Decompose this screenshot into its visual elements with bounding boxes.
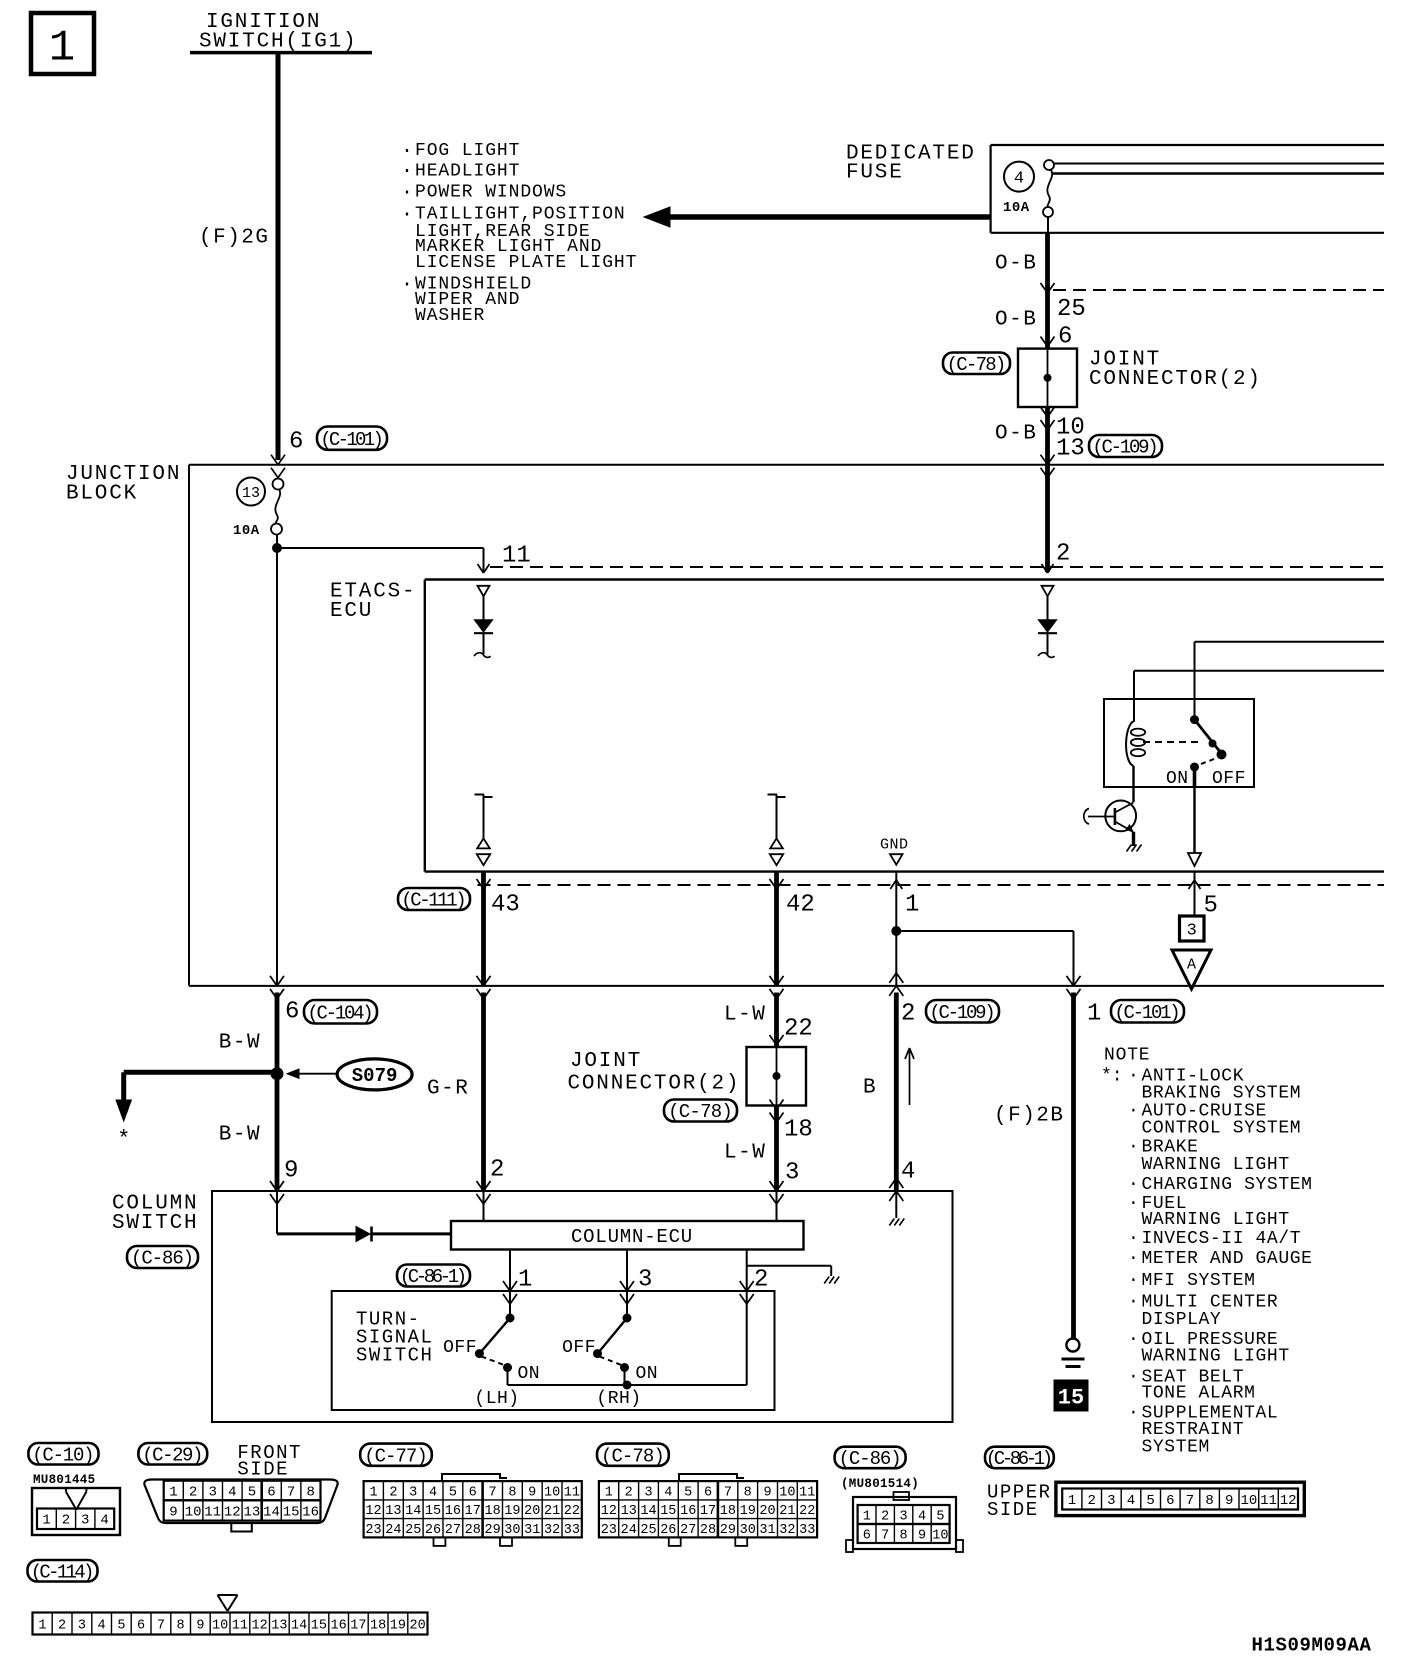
- svg-text:·: ·: [401, 181, 413, 204]
- connector C-78 drawing: [679, 1474, 744, 1481]
- wire pin 9 inside column switch: [276, 1191, 278, 1234]
- svg-text:·: ·: [1128, 1367, 1139, 1387]
- svg-text:23: 23: [365, 1523, 381, 1538]
- svg-text:18: 18: [370, 1618, 386, 1633]
- svg-text:30: 30: [504, 1523, 520, 1538]
- svg-text:1: 1: [1068, 1493, 1076, 1509]
- svg-text:27: 27: [445, 1523, 461, 1538]
- fuse 4 element: [1044, 160, 1054, 170]
- svg-text:28: 28: [465, 1523, 481, 1538]
- svg-text:2: 2: [754, 1267, 768, 1294]
- transistor emitter to internal ground: [1132, 832, 1135, 846]
- junction dot below fuse 13: [272, 543, 282, 553]
- ignition switch terminal bar: [190, 51, 372, 55]
- svg-text:B-W: B-W: [219, 1123, 261, 1146]
- svg-text:3: 3: [900, 1509, 908, 1524]
- svg-text:(C-78): (C-78): [668, 1101, 732, 1123]
- svg-text:(C-104): (C-104): [307, 1003, 371, 1025]
- svg-text:28: 28: [700, 1523, 716, 1538]
- svg-text:3: 3: [409, 1485, 417, 1500]
- svg-text:(C-10): (C-10): [32, 1445, 93, 1467]
- svg-text:OFF: OFF: [562, 1338, 596, 1358]
- diode inside column switch: [356, 1227, 370, 1242]
- ground reference black box 15: [1054, 1380, 1088, 1411]
- svg-text:DISPLAY: DISPLAY: [1142, 1310, 1222, 1330]
- svg-text:19: 19: [390, 1618, 406, 1633]
- svg-text:2: 2: [1087, 1493, 1095, 1509]
- svg-text:·: ·: [1128, 1066, 1139, 1086]
- svg-text:B-W: B-W: [219, 1032, 261, 1055]
- transistor Q1 inside ETACS: [1105, 801, 1136, 832]
- svg-text:9: 9: [196, 1618, 204, 1633]
- svg-text:·: ·: [1128, 1330, 1139, 1350]
- label C-109 stadium lower: [926, 1000, 999, 1023]
- svg-text:11: 11: [502, 543, 531, 570]
- relay box inside ETACS: [1104, 699, 1254, 787]
- relay coil-to-switch dashed link: [1143, 741, 1199, 743]
- svg-text:1: 1: [369, 1485, 377, 1500]
- svg-text:WARNING LIGHT: WARNING LIGHT: [1142, 1346, 1290, 1366]
- wire G-R into column ecu: [483, 1205, 485, 1221]
- joint connector (2) box C-78 top: [1018, 349, 1077, 407]
- svg-text:11: 11: [799, 1485, 815, 1500]
- svg-text:(F)2B: (F)2B: [994, 1105, 1065, 1128]
- svg-text:5: 5: [1146, 1493, 1154, 1509]
- svg-text:·: ·: [1128, 1137, 1139, 1157]
- relay switch common contact: [1190, 715, 1199, 724]
- GND pin triangle: [890, 854, 903, 865]
- svg-text:17: 17: [350, 1618, 366, 1633]
- svg-text:26: 26: [425, 1523, 441, 1538]
- svg-text:10A: 10A: [1003, 200, 1030, 216]
- wire (F)2G ignition feed vertical: [276, 53, 281, 460]
- svg-text:5: 5: [248, 1485, 256, 1501]
- svg-text:5: 5: [117, 1618, 125, 1633]
- connector reference triangle A: [1172, 950, 1211, 989]
- svg-text:·: ·: [1128, 1271, 1139, 1291]
- svg-text:4: 4: [429, 1485, 437, 1500]
- svg-text:HEADLIGHT: HEADLIGHT: [415, 161, 520, 181]
- svg-text:13: 13: [621, 1504, 637, 1519]
- crossing marks at junction block top: [1041, 455, 1048, 465]
- arrow into ETACS pin 2: [1042, 564, 1048, 573]
- svg-text:3: 3: [81, 1513, 89, 1529]
- branch wire to ETACS pin 11: [277, 547, 484, 549]
- svg-text:1: 1: [518, 1267, 532, 1294]
- svg-text:11: 11: [204, 1504, 221, 1520]
- turn signal switch RH contact: [623, 1314, 632, 1323]
- svg-text:1: 1: [169, 1485, 177, 1501]
- svg-text:22: 22: [784, 1016, 813, 1043]
- label C-101 stadium: [317, 427, 387, 450]
- svg-text:(LH): (LH): [474, 1389, 519, 1409]
- svg-text:22: 22: [799, 1504, 815, 1519]
- svg-text:2: 2: [901, 1001, 915, 1028]
- svg-text:·: ·: [1128, 1101, 1139, 1121]
- label C-78 stadium bottom: [597, 1444, 669, 1466]
- svg-text:(C-86-1): (C-86-1): [400, 1266, 465, 1288]
- svg-text:4: 4: [1127, 1493, 1135, 1509]
- fuse 4 lead to bottom edge: [1047, 217, 1049, 233]
- ground symbol: [1066, 1339, 1079, 1352]
- svg-text:9: 9: [918, 1528, 926, 1543]
- sheet reference box 3: [1180, 916, 1205, 941]
- label C-10 stadium: [28, 1443, 98, 1465]
- svg-text:12: 12: [224, 1504, 241, 1520]
- column ecu pin 3 wire: [626, 1250, 628, 1319]
- column ecu pin 2 wire: [746, 1250, 748, 1386]
- wire pin 5 down: [1194, 872, 1196, 916]
- label C-77 stadium: [360, 1444, 432, 1466]
- crossing marks into column switch: [270, 1181, 277, 1191]
- COLUMN-ECU box: [451, 1221, 804, 1250]
- svg-text:BRAKING SYSTEM: BRAKING SYSTEM: [1142, 1083, 1302, 1103]
- svg-text:16: 16: [445, 1504, 461, 1519]
- ETACS connector dashed line bottom: [478, 884, 1385, 886]
- svg-text:OFF: OFF: [1212, 769, 1246, 789]
- crossing marks at junction block bottom: [270, 976, 277, 986]
- label C-78 stadium lower: [664, 1100, 737, 1122]
- svg-text:MU801445: MU801445: [33, 1473, 95, 1487]
- diode D2 inside ETACS (pin 2 input): [1042, 586, 1054, 596]
- svg-text:JOINT: JOINT: [570, 1050, 642, 1073]
- svg-text:3: 3: [1107, 1493, 1115, 1509]
- bus lines from fuse supply: [1054, 163, 1384, 165]
- turn signal switch LH contact: [506, 1314, 515, 1323]
- svg-text:6: 6: [289, 429, 303, 456]
- svg-text:4: 4: [228, 1485, 236, 1501]
- relay switch dashed to ON: [1201, 758, 1218, 765]
- svg-text:6: 6: [285, 999, 299, 1026]
- svg-text:NOTE: NOTE: [1104, 1045, 1150, 1065]
- svg-text:2: 2: [189, 1485, 197, 1501]
- svg-text:13: 13: [243, 1504, 260, 1520]
- column ecu pin 1 wire: [509, 1250, 511, 1319]
- connector C-29 drawing: [144, 1480, 337, 1524]
- svg-text:·: ·: [1128, 1229, 1139, 1249]
- svg-text:10: 10: [1240, 1493, 1257, 1509]
- svg-text:25: 25: [405, 1523, 421, 1538]
- svg-text:12: 12: [365, 1504, 381, 1519]
- ETACS-ECU box outline: [425, 578, 1384, 580]
- svg-text:(C-86-1): (C-86-1): [986, 1448, 1051, 1470]
- svg-text:20: 20: [759, 1504, 775, 1519]
- svg-text:B: B: [863, 1077, 877, 1100]
- relay ON contact: [1190, 763, 1199, 772]
- label C-114 stadium: [28, 1560, 98, 1582]
- svg-text:4: 4: [98, 1618, 106, 1633]
- fuse 13 element: [273, 479, 284, 490]
- svg-text:OFF: OFF: [443, 1338, 477, 1358]
- svg-text:CONTROL SYSTEM: CONTROL SYSTEM: [1142, 1118, 1302, 1138]
- svg-text:ON: ON: [1166, 769, 1189, 789]
- turn signal common wire: [508, 1384, 747, 1386]
- svg-text:WARNING LIGHT: WARNING LIGHT: [1142, 1155, 1290, 1175]
- label C-86-1 stadium bottom: [985, 1447, 1054, 1469]
- svg-text:COLUMN-ECU: COLUMN-ECU: [571, 1226, 693, 1248]
- svg-text:7: 7: [881, 1528, 889, 1543]
- svg-text:25: 25: [640, 1523, 656, 1538]
- ETACS connector dashed line top: [490, 566, 1384, 568]
- junction block outline: [189, 464, 1384, 466]
- wire L-W pin 42 down: [774, 872, 779, 986]
- svg-text:(RH): (RH): [596, 1389, 641, 1409]
- splice S079 oval: [337, 1059, 412, 1090]
- wire B end hatch: [889, 1219, 894, 1226]
- svg-text:7: 7: [724, 1485, 732, 1500]
- svg-text:3: 3: [785, 1160, 799, 1187]
- connector C-86 drawing: [853, 1497, 956, 1549]
- svg-text:GND: GND: [880, 836, 909, 853]
- svg-text:(F)2G: (F)2G: [199, 227, 270, 250]
- svg-text:*: *: [117, 1127, 130, 1152]
- svg-text:9: 9: [1225, 1493, 1233, 1509]
- svg-text:20: 20: [524, 1504, 540, 1519]
- svg-text:8: 8: [306, 1485, 314, 1501]
- svg-text:8: 8: [177, 1618, 185, 1633]
- svg-text:1: 1: [49, 24, 75, 74]
- svg-text:7: 7: [1186, 1493, 1194, 1509]
- svg-text:2: 2: [62, 1513, 70, 1529]
- svg-text:·: ·: [1128, 1292, 1139, 1312]
- svg-text:1: 1: [38, 1618, 46, 1633]
- svg-text:1: 1: [42, 1513, 50, 1529]
- internal ground hatch: [1127, 845, 1132, 852]
- svg-text:24: 24: [621, 1523, 637, 1538]
- svg-text:18: 18: [720, 1504, 736, 1519]
- svg-text:29: 29: [484, 1523, 500, 1538]
- relay output wire to pin 5: [1193, 767, 1197, 787]
- svg-text:2: 2: [625, 1485, 633, 1500]
- svg-text:2: 2: [1056, 541, 1070, 568]
- svg-text:1: 1: [1087, 1001, 1101, 1028]
- relay feed line to switch common: [1194, 642, 1196, 720]
- svg-text:1: 1: [863, 1509, 871, 1524]
- connector C-114 drawing: [218, 1595, 228, 1611]
- label C-111 stadium: [398, 888, 470, 910]
- svg-text:O-B: O-B: [995, 253, 1037, 276]
- svg-text:31: 31: [524, 1523, 540, 1538]
- svg-text:33: 33: [799, 1523, 815, 1538]
- crossing marks into turn signal switch: [503, 1281, 510, 1291]
- svg-text:24: 24: [385, 1523, 401, 1538]
- wire GND pin 1 down: [895, 872, 897, 986]
- svg-text:3: 3: [1187, 922, 1197, 941]
- svg-text:8: 8: [508, 1485, 516, 1500]
- svg-text:14: 14: [640, 1504, 656, 1519]
- crossing mark: [1041, 283, 1048, 293]
- label C-109 stadium: [1089, 435, 1162, 457]
- svg-text:9: 9: [763, 1485, 771, 1500]
- svg-text:11: 11: [564, 1485, 580, 1500]
- wire L-W to column ecu: [774, 1106, 779, 1192]
- svg-text:29: 29: [720, 1523, 736, 1538]
- crossing into joint connector 2: [770, 1035, 777, 1045]
- svg-text:42: 42: [786, 892, 815, 919]
- svg-text:TONE ALARM: TONE ALARM: [1142, 1383, 1256, 1403]
- svg-text:SIDE: SIDE: [237, 1459, 289, 1481]
- relay coil: [1126, 699, 1134, 766]
- svg-text:WARNING LIGHT: WARNING LIGHT: [1142, 1210, 1290, 1230]
- svg-text:3: 3: [644, 1485, 652, 1500]
- connector C-10 drawing: [32, 1488, 120, 1535]
- svg-text:ON: ON: [518, 1364, 541, 1384]
- wire O-B from dedicated fuse: [1045, 233, 1050, 349]
- svg-text:·: ·: [1128, 1194, 1139, 1214]
- svg-text:43: 43: [491, 892, 520, 919]
- svg-text:(MU801514): (MU801514): [841, 1477, 919, 1491]
- fuse 4 circled number: [1004, 162, 1034, 192]
- svg-text:MFI SYSTEM: MFI SYSTEM: [1142, 1271, 1256, 1291]
- svg-text:FOG LIGHT: FOG LIGHT: [415, 141, 520, 161]
- svg-text:27: 27: [680, 1523, 696, 1538]
- connector dashed line C-... at fuse box: [1053, 289, 1384, 291]
- junction dot splice S079: [271, 1067, 284, 1080]
- svg-text:22: 22: [564, 1504, 580, 1519]
- svg-text:LICENSE PLATE LIGHT: LICENSE PLATE LIGHT: [415, 253, 637, 273]
- svg-text:(C-78): (C-78): [947, 354, 1005, 376]
- svg-text:*:: *:: [1101, 1066, 1123, 1086]
- svg-text:15: 15: [283, 1504, 300, 1520]
- wire (F)2B to ground: [1071, 993, 1076, 1340]
- svg-text:6: 6: [267, 1485, 275, 1501]
- svg-text:20: 20: [409, 1618, 425, 1633]
- svg-text:(C-114): (C-114): [31, 1562, 92, 1584]
- crossing mark into joint connector: [1041, 337, 1048, 347]
- svg-text:3: 3: [638, 1267, 652, 1294]
- svg-text:SWITCH: SWITCH: [356, 1345, 433, 1367]
- ETACS output stub pin 42: [768, 794, 778, 796]
- svg-text:9: 9: [284, 1158, 298, 1185]
- svg-text:10: 10: [544, 1485, 560, 1500]
- svg-text:10: 10: [212, 1618, 228, 1633]
- svg-text:15: 15: [660, 1504, 676, 1519]
- svg-text:21: 21: [779, 1504, 795, 1519]
- relay coil feed line: [1134, 670, 1384, 672]
- svg-text:1: 1: [905, 892, 919, 919]
- svg-text:SWITCH(IG1): SWITCH(IG1): [199, 31, 357, 54]
- wire B-W pin 6 C-104: [275, 993, 280, 1192]
- svg-text:21: 21: [544, 1504, 560, 1519]
- svg-text:9: 9: [528, 1485, 536, 1500]
- svg-text:SYSTEM: SYSTEM: [1142, 1437, 1210, 1457]
- svg-text:12: 12: [251, 1618, 267, 1633]
- svg-text:5: 5: [684, 1485, 692, 1500]
- svg-text:10A: 10A: [233, 523, 260, 539]
- svg-text:(C-109): (C-109): [1092, 437, 1156, 459]
- diode D1 inside ETACS (pin 11 input): [478, 586, 490, 596]
- svg-text:16: 16: [302, 1504, 319, 1520]
- svg-text:(C-29): (C-29): [142, 1445, 202, 1467]
- label C-78 stadium: [943, 353, 1010, 375]
- svg-text:12: 12: [1280, 1493, 1297, 1509]
- svg-text:14: 14: [291, 1618, 307, 1633]
- svg-text:32: 32: [544, 1523, 560, 1538]
- svg-text:4: 4: [918, 1509, 926, 1524]
- svg-text:O-B: O-B: [995, 309, 1037, 332]
- svg-text:(C-77): (C-77): [364, 1445, 427, 1467]
- svg-text:11: 11: [1260, 1493, 1277, 1509]
- svg-text:BLOCK: BLOCK: [66, 483, 138, 506]
- svg-text:(C-86): (C-86): [131, 1248, 193, 1270]
- svg-text:23: 23: [601, 1523, 617, 1538]
- label C-101 stadium lower: [1111, 1000, 1184, 1023]
- wire from fuse 13 down: [276, 535, 278, 986]
- svg-text:H1S09M09AA: H1S09M09AA: [1252, 1634, 1372, 1656]
- label C-29 stadium: [138, 1443, 207, 1465]
- direction arrow beside wire B: [909, 1048, 911, 1105]
- svg-text:SIDE: SIDE: [987, 1499, 1039, 1521]
- svg-text:19: 19: [740, 1504, 756, 1519]
- wire L-W into column ecu: [776, 1205, 778, 1221]
- svg-text:·: ·: [401, 203, 413, 226]
- wire G-R pin 43 to column switch: [481, 993, 486, 1192]
- svg-text:2: 2: [58, 1618, 66, 1633]
- sheet number box 1: [31, 13, 94, 74]
- svg-text:6: 6: [704, 1485, 712, 1500]
- svg-text:18: 18: [484, 1504, 500, 1519]
- svg-text:6: 6: [1058, 324, 1072, 351]
- arrow into ETACS pin 11: [478, 564, 484, 573]
- svg-text:WASHER: WASHER: [415, 306, 485, 326]
- svg-text:·: ·: [401, 160, 413, 183]
- svg-text:·: ·: [1128, 1175, 1139, 1195]
- svg-text:13: 13: [385, 1504, 401, 1519]
- fuse 13 circled number: [237, 478, 265, 506]
- svg-text:CHARGING SYSTEM: CHARGING SYSTEM: [1142, 1175, 1313, 1195]
- crossing into junction block ignition wire: [271, 455, 278, 465]
- label C-104 stadium: [304, 1000, 377, 1024]
- svg-text:ECU: ECU: [330, 600, 373, 623]
- relay switch blade: [1195, 720, 1222, 753]
- svg-text:G-R: G-R: [427, 1078, 469, 1101]
- svg-text:13: 13: [271, 1618, 287, 1633]
- svg-text:10: 10: [932, 1528, 948, 1543]
- svg-text:26: 26: [660, 1523, 676, 1538]
- svg-text:11: 11: [232, 1618, 248, 1633]
- svg-text:8: 8: [744, 1485, 752, 1500]
- svg-text:2: 2: [389, 1485, 397, 1500]
- label C-86 stadium: [127, 1246, 198, 1268]
- svg-text:(C-78): (C-78): [601, 1445, 664, 1467]
- pin 2 branch to chassis stub: [747, 1265, 832, 1267]
- svg-text:17: 17: [700, 1504, 716, 1519]
- svg-text:16: 16: [680, 1504, 696, 1519]
- crossing below joint connector 2: [770, 1100, 777, 1110]
- svg-text:8: 8: [1205, 1493, 1213, 1509]
- svg-text:5: 5: [936, 1509, 944, 1524]
- arrow to fed circuits (thick, points left): [667, 214, 990, 220]
- svg-text:15: 15: [1058, 1385, 1084, 1410]
- svg-text:4: 4: [1014, 170, 1024, 189]
- svg-text:·: ·: [1128, 1249, 1139, 1269]
- crossing marks below joint connector: [1041, 407, 1048, 417]
- label C-86 stadium bottom: [835, 1447, 906, 1469]
- svg-text:·: ·: [1128, 1403, 1139, 1423]
- arrow S079 to splice: [290, 1073, 337, 1075]
- svg-text:30: 30: [740, 1523, 756, 1538]
- svg-text:(C-101): (C-101): [320, 429, 381, 451]
- svg-text:POWER WINDOWS: POWER WINDOWS: [415, 183, 567, 203]
- label C-86-1 stadium: [397, 1265, 470, 1287]
- joint connector (2) box C-78 lower: [747, 1047, 807, 1106]
- svg-text:14: 14: [405, 1504, 421, 1519]
- svg-text:6: 6: [469, 1485, 477, 1500]
- svg-text:6: 6: [863, 1528, 871, 1543]
- ETACS output stub pin 43: [475, 794, 485, 796]
- svg-text:31: 31: [759, 1523, 775, 1538]
- svg-text:25: 25: [1057, 296, 1086, 323]
